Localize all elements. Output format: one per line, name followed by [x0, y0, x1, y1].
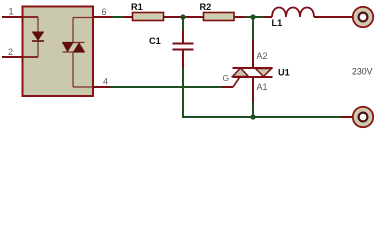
svg-text:4: 4 [103, 77, 108, 87]
svg-text:A2: A2 [257, 51, 268, 61]
svg-text:2: 2 [8, 47, 13, 57]
svg-text:R1: R1 [131, 2, 143, 12]
svg-text:230V: 230V [352, 67, 373, 77]
svg-text:G: G [223, 73, 230, 83]
svg-text:C1: C1 [149, 36, 161, 46]
svg-text:L1: L1 [272, 18, 283, 28]
svg-text:1: 1 [9, 7, 14, 17]
svg-text:A1: A1 [257, 82, 268, 92]
svg-text:R2: R2 [200, 2, 212, 12]
svg-text:U1: U1 [278, 68, 290, 78]
svg-text:6: 6 [102, 7, 107, 17]
